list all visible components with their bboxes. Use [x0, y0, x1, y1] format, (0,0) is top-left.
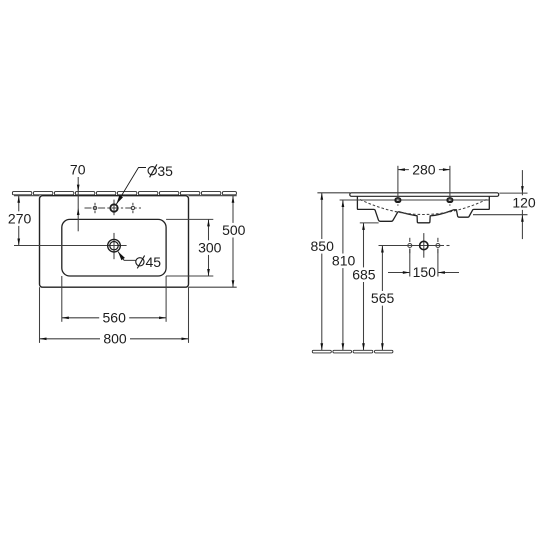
floor line [312, 350, 393, 353]
dim 685 arrow down [362, 343, 365, 350]
optional hole left [93, 203, 96, 213]
dim 685 arrow up [362, 223, 365, 230]
inner bowl rounded rectangle [62, 219, 166, 276]
svg-text:35: 35 [157, 163, 173, 179]
leader line for Ø45 [118, 252, 136, 261]
dim 120 vertical line [521, 170, 523, 239]
dim 280 arrow right [443, 168, 450, 171]
basin body outline (front view) [357, 196, 489, 223]
dim 120 arrow up [521, 215, 524, 222]
label 800 [100, 331, 130, 347]
trap centerline dash right [447, 245, 450, 247]
dim 120 top extension line [499, 192, 527, 194]
dim 300 arrow down [207, 269, 210, 276]
leader arrow Ø45 [118, 252, 125, 261]
label 565 [368, 290, 398, 306]
label Ø35 diameter symbol [148, 164, 157, 177]
dim 560 arrow left [62, 316, 69, 319]
optional hole right [131, 203, 134, 213]
dim 120 arrow down [521, 186, 524, 193]
basin outer rectangle (plan) [40, 196, 189, 288]
svg-text:850: 850 [311, 238, 335, 254]
dim 270 arrow up [17, 196, 20, 203]
dim 270 vertical line [18, 196, 20, 246]
svg-text:565: 565 [371, 290, 395, 306]
hidden bowl dashed curve [360, 200, 487, 215]
faucet hole dashed centerline [85, 207, 142, 209]
dim 300 arrow up [207, 219, 210, 226]
dim 800 arrow left [40, 337, 47, 340]
dim 850 arrow up [320, 193, 323, 200]
label 120 [509, 194, 536, 210]
dim 70 arrow down [77, 185, 80, 192]
dim 500 vertical line [232, 196, 234, 288]
faucet hole circle [110, 204, 117, 211]
label 560 [99, 310, 129, 326]
label 810 [329, 253, 359, 269]
dim 500 arrow up [232, 196, 235, 203]
dim 300 top extension line [166, 218, 213, 220]
svg-text:800: 800 [103, 331, 127, 347]
leader arrow Ø35 [116, 195, 123, 204]
fixing hole left (front view) [395, 198, 400, 206]
trap horizontal centerline [379, 245, 445, 247]
label 280 [409, 161, 439, 177]
dim 150 left line [388, 272, 410, 274]
dim 120 bottom extension line [473, 214, 528, 216]
svg-text:70: 70 [70, 162, 86, 178]
810 extension line through fixing holes [340, 199, 490, 201]
dim 850 arrow down [320, 343, 323, 350]
dim 150 right extension line [437, 249, 439, 277]
dim 685 vertical line [363, 223, 365, 350]
waste outlet circle (center) [420, 241, 428, 249]
270 bottom dim/extension line through drain center [14, 245, 127, 247]
dim 560 line [62, 317, 166, 319]
svg-text:300: 300 [198, 239, 222, 255]
label 270 [5, 210, 35, 226]
dim 565 arrow up [381, 246, 384, 253]
dim 300 bottom extension line [166, 275, 213, 277]
svg-text:500: 500 [222, 222, 246, 238]
svg-text:45: 45 [146, 254, 162, 270]
svg-text:150: 150 [413, 264, 437, 280]
dim 280 arrow left [398, 168, 405, 171]
dim 150 right line [438, 272, 459, 274]
fixing screw circle right [436, 238, 440, 253]
svg-text:280: 280 [412, 161, 436, 177]
drain hole outer circle [108, 239, 121, 252]
dim 500 top extension line [189, 195, 237, 197]
trap vertical centerline [423, 233, 425, 258]
850 top extension line [317, 192, 350, 194]
label Ø45 diameter symbol [136, 256, 145, 269]
label 685 [349, 267, 379, 283]
label 300 [195, 239, 225, 255]
dim 70 vertical line [77, 177, 79, 231]
280 left extension line [397, 166, 399, 198]
svg-text:685: 685 [352, 267, 376, 283]
rim slab (front view) [350, 193, 499, 197]
280 right extension line [449, 166, 451, 198]
leader line for Ø35 [116, 168, 146, 205]
685 extension line [360, 222, 379, 224]
dim 300 vertical line [208, 219, 210, 276]
dim 800 arrow right [182, 337, 189, 340]
fixing screw circle left [408, 238, 412, 253]
270 top extension line [14, 195, 40, 197]
fixing hole right (front view) [447, 198, 452, 206]
svg-text:270: 270 [8, 210, 32, 226]
dim 280 line [398, 169, 450, 171]
dim 810 arrow up [342, 200, 345, 207]
dim 810 arrow down [342, 343, 345, 350]
dim 500 bottom extension line [189, 286, 237, 288]
faucet hole vertical centerline [113, 200, 115, 216]
dim 560 left extension line [61, 276, 63, 322]
dim 270 arrow down [17, 239, 20, 246]
dim 800 left extension line [39, 287, 41, 343]
dim 565 vertical line [381, 246, 383, 351]
dim 150 left extension line [409, 249, 411, 277]
drain vertical centerline [113, 233, 115, 259]
wall tile line (top, plan view) [12, 192, 236, 195]
drain hole inner circle [110, 242, 118, 250]
dim 150 arrow right-pointing [403, 271, 410, 274]
dim 800 line [40, 338, 189, 340]
dim 560 arrow right [159, 316, 166, 319]
dim 560 right extension line [165, 276, 167, 322]
dim 800 right extension line [188, 287, 190, 343]
dim 500 arrow down [232, 280, 235, 287]
svg-text:560: 560 [103, 310, 127, 326]
dim 70 arrow up [77, 208, 80, 215]
label 500 [219, 222, 249, 238]
dim 565 arrow down [381, 343, 384, 350]
label 850 [307, 238, 337, 254]
dim 810 vertical line [342, 200, 344, 350]
dim 850 vertical line [321, 193, 323, 350]
svg-text:120: 120 [512, 194, 536, 210]
dim 150 arrow left-pointing [438, 271, 445, 274]
